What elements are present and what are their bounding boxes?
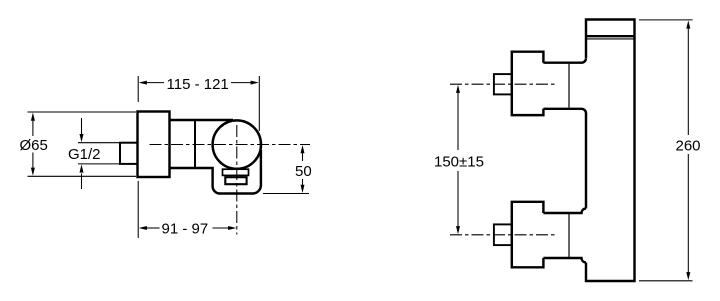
svg-text:50: 50 [295, 163, 312, 180]
svg-text:G1/2: G1/2 [68, 146, 101, 163]
svg-text:150±15: 150±15 [434, 153, 484, 170]
svg-text:115 - 121: 115 - 121 [167, 76, 229, 93]
svg-text:Ø65: Ø65 [20, 137, 48, 154]
svg-text:91 - 97: 91 - 97 [162, 221, 209, 238]
svg-text:260: 260 [676, 137, 701, 154]
